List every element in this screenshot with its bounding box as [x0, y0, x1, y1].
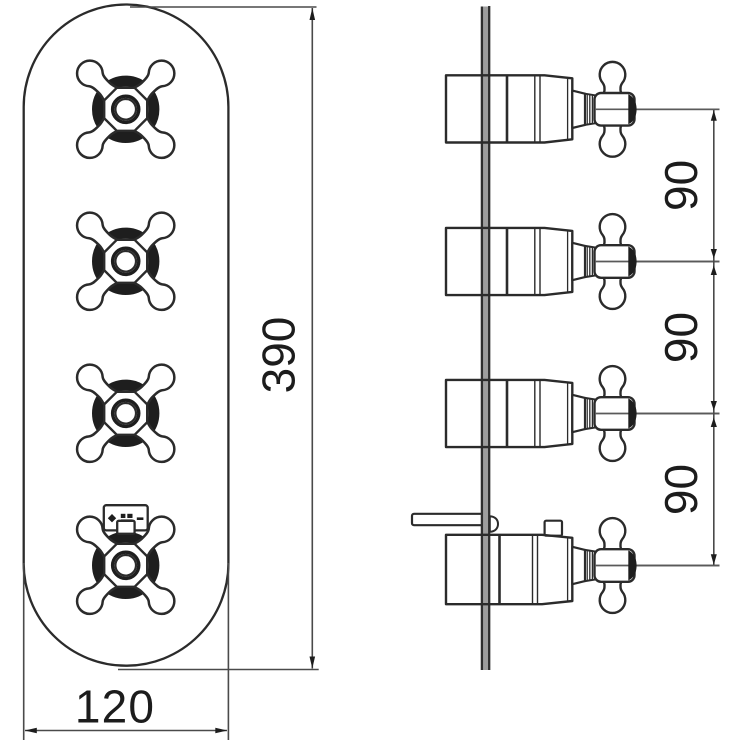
- SE spoke of H4: [127, 566, 180, 619]
- cross handle H4 (front view): [72, 511, 180, 619]
- extension line, plate left edge down: [23, 563, 25, 740]
- bonnet of V3: [572, 395, 585, 432]
- centre line of V1: [584, 108, 720, 110]
- SW spoke of H1: [72, 110, 125, 163]
- arrow down (chain bottom): [711, 554, 717, 565]
- lower handle spoke of V2: [600, 274, 626, 309]
- valve unit V1 (side view): [446, 62, 720, 157]
- lever boss behind plate (V4): [490, 516, 498, 532]
- hub nut (dark) of V3: [628, 399, 636, 429]
- NW spoke of H2: [72, 207, 125, 260]
- SE spoke of H1: [127, 110, 180, 163]
- arrow up (390 top): [310, 8, 316, 20]
- NE spoke of H2: [127, 207, 180, 260]
- body groove of V1: [506, 75, 509, 142]
- valve unit V2 (side view): [446, 214, 720, 309]
- dimension line 390: [311, 8, 313, 669]
- octagonal hub of H4: [104, 544, 147, 587]
- upper handle spoke of V3: [600, 366, 626, 401]
- faceplate (front view, stadium shape): [24, 5, 229, 666]
- body seam lines of V2: [534, 228, 536, 295]
- NE spoke of H1: [127, 55, 180, 108]
- body seam lines of V4: [532, 535, 534, 604]
- NW spoke of H3: [72, 359, 125, 412]
- indicator scale marks: [121, 514, 126, 518]
- svg-text:90: 90: [655, 312, 707, 363]
- svg-text:390: 390: [253, 317, 305, 394]
- upper handle spoke of V1: [600, 62, 626, 97]
- NW spoke of H1: [72, 55, 125, 108]
- valve body of V3: [446, 380, 572, 447]
- outer cap ring of H4: [113, 552, 139, 578]
- octagonal hub of H3: [104, 392, 147, 435]
- ribbed collar of V1: [585, 94, 595, 125]
- hub nut (dark) of V4: [628, 551, 636, 581]
- centre line of V2: [584, 261, 720, 263]
- inner cap circle of H4: [115, 555, 136, 576]
- svg-text:90: 90: [655, 160, 707, 211]
- inner cap circle of H1: [115, 99, 136, 120]
- SW spoke of H2: [72, 262, 125, 315]
- arrow pair at 2nd line: [711, 249, 717, 259]
- lower handle spoke of V3: [600, 426, 626, 461]
- outer cap ring of H3: [113, 400, 139, 426]
- dimension line 90 chain: [713, 110, 715, 565]
- extension line, plate bottom: [118, 669, 319, 671]
- extension line, plate top: [130, 6, 317, 8]
- arrow right (120): [215, 728, 227, 734]
- centre line of V3: [584, 413, 720, 415]
- valve body of V4: [446, 535, 572, 604]
- dimension line 120: [25, 730, 227, 732]
- handle hub of V3: [595, 397, 635, 430]
- wall plate (side view, edge-on): [481, 7, 490, 671]
- bonnet of V2: [572, 243, 585, 280]
- centre line of V4: [584, 565, 720, 567]
- centre line over hub of V2: [595, 261, 720, 263]
- svg-text:90: 90: [655, 464, 707, 515]
- ribbed collar of V3: [585, 398, 595, 429]
- indicator pointer tab: [117, 521, 134, 534]
- escutcheon ring of H2: [98, 233, 154, 289]
- NE spoke of H3: [127, 359, 180, 412]
- centre line over hub of V3: [595, 413, 720, 415]
- hub nut (dark) of V2: [628, 247, 636, 277]
- hub nut (dark) of V1: [628, 94, 636, 124]
- valve unit V3 (side view): [446, 366, 720, 461]
- arrow pair at 3rd line: [711, 401, 717, 411]
- body seam lines of V3: [534, 380, 536, 447]
- body seam lines of V1: [534, 75, 536, 142]
- handle hub of V2: [595, 245, 635, 278]
- arrow left (120): [25, 728, 37, 734]
- inner cap circle of H3: [115, 403, 136, 424]
- NE spoke of H4: [127, 511, 180, 564]
- ribbed collar of V4: [585, 550, 595, 581]
- valve body of V1: [446, 75, 572, 142]
- bonnet of V4: [572, 547, 585, 584]
- arrow up (chain top): [711, 110, 717, 121]
- SW spoke of H4: [72, 566, 125, 619]
- octagonal hub of H1: [104, 88, 147, 131]
- SE spoke of H2: [127, 262, 180, 315]
- arrow down (390 bottom): [310, 657, 316, 669]
- lower handle spoke of V4: [600, 578, 626, 613]
- body groove of V2: [506, 228, 509, 295]
- NW spoke of H4: [72, 511, 125, 564]
- indicator snowflake mark: [108, 514, 116, 522]
- escutcheon ring of H3: [98, 385, 154, 441]
- centre line over hub of V4: [595, 565, 720, 567]
- handle hub of V1: [595, 93, 635, 126]
- upper handle spoke of V2: [600, 214, 626, 249]
- octagonal hub of H2: [104, 240, 147, 283]
- lower handle spoke of V1: [600, 121, 626, 156]
- diverter lever of unit V4: [412, 514, 485, 525]
- inner cap circle of H2: [115, 251, 136, 272]
- valve unit V4 (side view): [446, 518, 720, 613]
- cross handle H1 (front view): [72, 55, 180, 163]
- ribbed collar of V2: [585, 246, 595, 277]
- extension line, plate right edge down: [227, 563, 229, 740]
- outer cap ring of H1: [113, 96, 139, 122]
- upper handle spoke of V4: [600, 518, 626, 553]
- bonnet of V1: [572, 91, 585, 128]
- valve body of V2: [446, 228, 572, 295]
- escutcheon ring of H1: [98, 81, 154, 137]
- cross handle H3 (front view): [72, 359, 180, 467]
- escutcheon ring of H4: [98, 537, 154, 593]
- stop block on top of unit V4 body: [545, 521, 562, 536]
- svg-text:120: 120: [75, 681, 155, 733]
- cross handle H2 (front view): [72, 207, 180, 315]
- SW spoke of H3: [72, 414, 125, 467]
- SE spoke of H3: [127, 414, 180, 467]
- outer cap ring of H2: [113, 248, 139, 274]
- body groove of V3: [506, 380, 509, 447]
- body groove of V4: [498, 535, 501, 604]
- handle hub of V4: [595, 549, 635, 582]
- temperature indicator plate on H4: [104, 505, 148, 530]
- centre line over hub of V1: [595, 108, 720, 110]
